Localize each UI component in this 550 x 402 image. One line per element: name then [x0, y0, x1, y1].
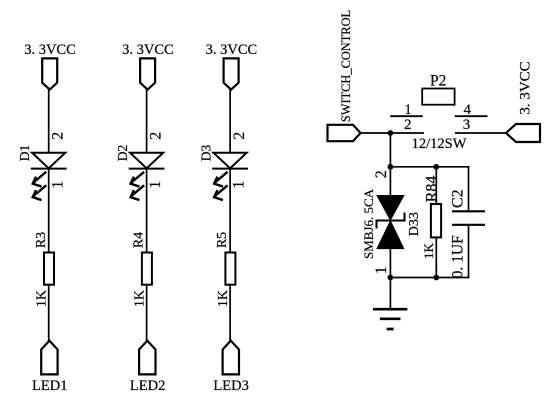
- port LED3 symbol: [223, 341, 239, 375]
- LED D3 emission arrow 1: [214, 173, 227, 187]
- svg-text:1K: 1K: [421, 242, 436, 259]
- power port 3.3VCC flag (column 2): [140, 58, 155, 89]
- junction dot R84 bottom: [433, 275, 439, 281]
- wire junction down to TVS D33: [389, 133, 391, 197]
- LED D1 triangle: [32, 153, 65, 169]
- svg-text:1: 1: [49, 181, 66, 189]
- LED D2 triangle: [130, 153, 163, 169]
- svg-text:1: 1: [147, 181, 164, 189]
- port SWITCH_CONTROL symbol: [328, 125, 361, 141]
- resistor R84 body: [431, 204, 441, 237]
- wire LED D2 to resistor R4: [146, 169, 148, 253]
- svg-text:LED1: LED1: [32, 378, 67, 394]
- switch P2 pin 1 lead: [391, 115, 422, 117]
- svg-text:3. 3VCC: 3. 3VCC: [206, 42, 258, 58]
- LED D1 cathode bar: [32, 168, 66, 170]
- TVS diode D33 cathode Z-bar: [377, 214, 405, 228]
- svg-text:2: 2: [50, 132, 67, 140]
- svg-text:2: 2: [404, 117, 412, 133]
- power port 3.3VCC flag (column 1): [42, 58, 57, 89]
- svg-text:D33: D33: [407, 212, 422, 236]
- wire flag to LED D2: [146, 90, 148, 153]
- svg-text:R3: R3: [34, 232, 49, 248]
- wire flag to LED D1: [48, 90, 50, 153]
- svg-text:C2: C2: [449, 189, 466, 208]
- wire top rail to C2: [468, 167, 470, 212]
- ground symbol: [374, 309, 406, 329]
- TVS diode D33 lower triangle: [377, 222, 403, 249]
- LED D3 emission arrow 2: [214, 186, 227, 200]
- wire resistor R3 to port LED1: [48, 285, 50, 341]
- LED D3 cathode bar: [213, 168, 247, 170]
- port LED1 symbol: [41, 341, 57, 375]
- svg-text:0. 1UF: 0. 1UF: [449, 235, 466, 278]
- svg-text:1: 1: [404, 102, 412, 118]
- wire LED D1 to resistor R3: [48, 169, 50, 253]
- wire bottom rail to ground: [389, 278, 391, 310]
- svg-text:D1: D1: [17, 145, 32, 162]
- switch P2 pin 4 lead: [456, 115, 487, 117]
- LED D3 triangle: [214, 153, 247, 169]
- svg-text:D2: D2: [115, 145, 130, 162]
- wire C2 to bottom rail: [468, 225, 470, 278]
- wire resistor R4 to port LED2: [146, 285, 148, 341]
- svg-text:SMBJ6. 5CA: SMBJ6. 5CA: [361, 188, 376, 259]
- wire R84 to bottom rail: [435, 237, 437, 277]
- power port 3.3VCC flag (column 3): [224, 58, 239, 89]
- svg-text:R5: R5: [215, 232, 230, 248]
- wire SWITCH_CONTROL port to switch P2 pin 2: [361, 132, 424, 134]
- resistor R5 body: [225, 253, 235, 285]
- TVS diode D33 upper triangle: [377, 196, 403, 220]
- node bottom rail: [390, 277, 468, 279]
- junction node at switch wire: [388, 130, 394, 136]
- power port 3.3VCC (right): [506, 124, 540, 142]
- wire top rail to R84: [435, 167, 437, 204]
- junction dot main/top-rail: [388, 164, 394, 170]
- resistor R3 body: [44, 253, 54, 285]
- svg-text:1: 1: [231, 181, 248, 189]
- svg-text:R4: R4: [132, 232, 147, 248]
- capacitor C2 bottom plate: [453, 224, 484, 226]
- svg-text:1K: 1K: [216, 290, 231, 307]
- svg-text:P2: P2: [430, 72, 446, 89]
- svg-text:2: 2: [147, 132, 164, 140]
- node top rail: [390, 166, 468, 168]
- svg-text:2: 2: [373, 170, 390, 178]
- svg-text:3: 3: [463, 117, 471, 133]
- svg-text:SWITCH_CONTROL: SWITCH_CONTROL: [339, 10, 353, 122]
- svg-text:2: 2: [231, 132, 248, 140]
- wire switch P2 pin 3 to 3.3VCC port: [456, 132, 506, 134]
- resistor R4 body: [142, 253, 152, 285]
- svg-text:12/12SW: 12/12SW: [412, 136, 467, 152]
- switch P2 body: [422, 89, 454, 105]
- svg-text:R84: R84: [424, 176, 441, 203]
- LED D2 cathode bar: [130, 168, 164, 170]
- capacitor C2 top plate: [453, 210, 484, 212]
- svg-text:LED3: LED3: [213, 378, 248, 394]
- junction dot R84 top: [433, 164, 439, 170]
- svg-text:4: 4: [463, 102, 471, 118]
- wire LED D3 to resistor R5: [229, 169, 231, 253]
- svg-text:3. 3VCC: 3. 3VCC: [122, 42, 174, 58]
- svg-text:3. 3VCC: 3. 3VCC: [518, 61, 534, 114]
- LED D1 emission arrow 2: [33, 186, 46, 200]
- wire resistor R5 to port LED3: [229, 285, 231, 341]
- wire flag to LED D3: [229, 90, 231, 153]
- LED D2 emission arrow 2: [131, 186, 144, 200]
- svg-text:3. 3VCC: 3. 3VCC: [24, 42, 76, 58]
- port LED2 symbol: [139, 341, 155, 375]
- svg-text:1: 1: [373, 266, 390, 274]
- LED D1 emission arrow 1: [33, 173, 46, 187]
- svg-text:1K: 1K: [35, 290, 50, 307]
- svg-text:1K: 1K: [132, 290, 147, 307]
- LED D2 emission arrow 1: [131, 173, 144, 187]
- junction dot TVS bottom: [388, 275, 394, 281]
- svg-text:D3: D3: [199, 145, 214, 162]
- svg-text:LED2: LED2: [130, 378, 165, 394]
- wire TVS D33 to bottom rail: [389, 248, 391, 277]
